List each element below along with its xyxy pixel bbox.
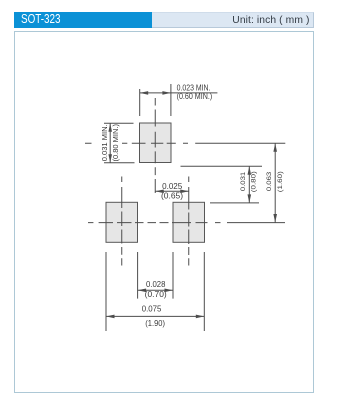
drawing panel — [14, 31, 314, 393]
dimension line 0.031 right — [248, 166, 252, 203]
svg-text:0.025: 0.025 — [162, 182, 183, 191]
svg-text:(1.60): (1.60) — [277, 171, 284, 192]
label 0.031 MIN. vertical — [102, 124, 120, 162]
svg-text:0.031: 0.031 — [240, 172, 247, 192]
dimension line 0.063 — [273, 143, 277, 222]
svg-text:(0.65): (0.65) — [161, 191, 183, 200]
svg-text:(1.90): (1.90) — [145, 319, 165, 328]
svg-text:(0.80): (0.80) — [251, 171, 258, 192]
dimension line 0.028 — [138, 289, 173, 293]
label 0.075 (1.90) — [142, 305, 166, 329]
header unit bar — [152, 12, 314, 28]
dimension line 0.023 MIN — [140, 91, 218, 95]
svg-text:(0.70): (0.70) — [145, 290, 167, 299]
svg-text:(0.80 MIN.): (0.80 MIN.) — [113, 124, 120, 162]
svg-text:0.063: 0.063 — [266, 172, 273, 192]
label 0.025 — [161, 182, 183, 201]
center line horizontal top row — [85, 142, 285, 144]
extension lines dimension 0.028 — [138, 252, 173, 299]
extension lines dimension 0.031 right — [181, 166, 263, 203]
label 0.023 MIN. — [177, 83, 213, 101]
label 0.028 (0.70) — [145, 280, 167, 299]
dimension line 0.031 MIN left — [108, 123, 112, 162]
label 0.031 (0.80) vertical — [240, 171, 258, 192]
center line vertical pad P2 — [188, 177, 190, 266]
svg-text:(0.60 MIN.): (0.60 MIN.) — [177, 92, 213, 101]
label 0.063 (1.60) vertical — [266, 171, 284, 192]
svg-text:0.023 MIN.: 0.023 MIN. — [177, 83, 211, 92]
svg-text:0.028: 0.028 — [146, 280, 166, 289]
extension lines dimension 0.023 — [140, 84, 171, 116]
header title bar — [14, 12, 152, 28]
center line vertical pad P3 — [154, 98, 156, 193]
extension lines dimension 0.075 — [106, 252, 204, 331]
pad P3 top — [140, 123, 172, 163]
center line vertical pad P1 — [121, 177, 123, 266]
pad P2 bottom right — [173, 202, 205, 242]
svg-text:0.031 MIN.: 0.031 MIN. — [102, 124, 109, 161]
dimension line 0.075 — [106, 315, 204, 319]
dimension line 0.025 — [155, 190, 189, 194]
svg-text:0.075: 0.075 — [142, 305, 162, 314]
center line horizontal bottom row — [88, 222, 285, 224]
pad P1 bottom left — [106, 202, 138, 242]
extension lines dimension 0.031 MIN left — [104, 123, 135, 162]
